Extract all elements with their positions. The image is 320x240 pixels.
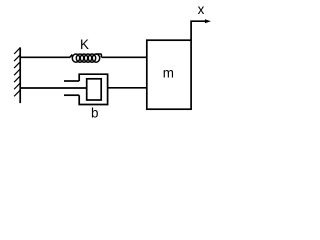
- spring K entry slope: [70, 55, 72, 58]
- spring K coil loop 5: [88, 54, 95, 62]
- wall hatch 3: [14, 62, 20, 68]
- damper fork bottom lip: [64, 94, 79, 96]
- mass-spring-damper mechanical diagram: [0, 0, 218, 127]
- damper fork top lip: [64, 80, 79, 82]
- svg-text:K: K: [80, 37, 89, 52]
- wire: wall to spring coil: [20, 56, 70, 58]
- damper housing (open left): [79, 74, 107, 104]
- wall hatch 1: [14, 48, 20, 54]
- svg-text:b: b: [91, 105, 98, 120]
- spring K coil loop 1: [72, 54, 79, 62]
- displacement arrow stem: [191, 21, 205, 40]
- spring K coil loop 3: [80, 54, 87, 62]
- wall hatch 6: [14, 83, 20, 89]
- spring K exit step: [96, 54, 102, 57]
- wire: spring coil to mass: [101, 56, 146, 58]
- wire: damper to mass: [108, 87, 147, 89]
- wall hatch 2: [14, 55, 20, 61]
- displacement arrow head: [205, 19, 211, 23]
- mass block: [147, 40, 191, 109]
- wall hatch 5: [14, 76, 20, 82]
- spring K coil loop 4: [84, 54, 91, 62]
- wall vertical line: [19, 47, 21, 103]
- svg-text:m: m: [163, 66, 174, 81]
- spring K coil loop 6: [92, 54, 99, 62]
- wall hatch 4: [14, 69, 20, 75]
- svg-text:x: x: [198, 2, 205, 17]
- damper piston: [87, 79, 102, 100]
- spring K coil loop 2: [76, 54, 83, 62]
- wall hatch 7: [14, 90, 20, 96]
- wire: wall to damper piston rod: [20, 87, 87, 89]
